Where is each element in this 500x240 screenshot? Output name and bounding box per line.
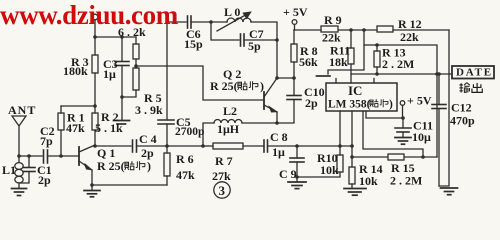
capacitor C6 <box>167 16 211 28</box>
wire collector Q1 node <box>95 145 131 147</box>
node dot C3 top <box>120 35 124 39</box>
capacitor C3 <box>115 37 129 97</box>
wire R1 top <box>61 105 95 107</box>
resistor R10 <box>297 146 343 177</box>
node dot C3 R5 bottom <box>120 95 124 99</box>
svg-text:ANT: ANT <box>8 103 36 117</box>
svg-text:2p: 2p <box>38 173 51 187</box>
svg-text:R 9: R 9 <box>324 13 342 27</box>
node dot C4 C5 R6 <box>165 144 169 148</box>
capacitor C4 <box>133 140 137 152</box>
svg-text:LM 358(: LM 358( <box>328 99 371 111</box>
node dot Q2 collector <box>275 76 279 80</box>
svg-text:): ) <box>260 79 264 93</box>
wire rail mid <box>339 29 377 31</box>
svg-text:10k: 10k <box>359 174 378 188</box>
node dot R13 bottom <box>375 72 379 76</box>
svg-text:2p: 2p <box>141 146 154 160</box>
transistor Q2 <box>264 78 277 123</box>
svg-text:47k: 47k <box>176 168 195 182</box>
capacitor C7 <box>241 34 245 46</box>
resistor R13 <box>374 45 380 74</box>
svg-text:C12: C12 <box>451 101 472 115</box>
terminal IC +5V <box>400 101 405 106</box>
transistor Q1 <box>79 145 95 185</box>
node dot C6 L0 <box>209 20 213 24</box>
svg-text:+ 5V: + 5V <box>283 5 308 19</box>
svg-text:R 6: R 6 <box>176 152 194 166</box>
wire C2 to Q1 base <box>48 155 80 157</box>
wire collector link to R8 <box>277 77 294 79</box>
wire R13 feedback loop <box>377 45 437 157</box>
node left rail <box>95 36 136 38</box>
wire +5V rail <box>294 29 321 31</box>
inductor L2 <box>203 120 277 146</box>
svg-text:C 9: C 9 <box>279 167 297 181</box>
ground under R5 <box>114 97 130 124</box>
node dot R10 pin <box>338 144 342 148</box>
resistor R1 <box>58 106 64 156</box>
node dot C7 collector <box>275 38 279 42</box>
svg-text:C 4: C 4 <box>139 132 157 146</box>
resistor R7 <box>203 143 263 149</box>
resistor R8 <box>291 30 297 78</box>
capacitor C12 <box>432 74 446 186</box>
svg-text:R 25(: R 25( <box>210 79 238 93</box>
svg-text:+ 5V: + 5V <box>407 94 432 108</box>
svg-text:1μ: 1μ <box>272 145 285 159</box>
ground IC <box>317 75 331 77</box>
node dot Q2 emitter L2 <box>275 121 279 125</box>
capacitor C1 <box>19 156 35 183</box>
svg-text:22k: 22k <box>400 30 419 44</box>
svg-text:10μ: 10μ <box>412 130 431 144</box>
wire step to Q2 base <box>136 66 264 100</box>
svg-text:R 12: R 12 <box>398 17 422 31</box>
antenna ANT <box>12 116 26 156</box>
node dot V+ rail <box>362 28 366 32</box>
ground under R14 <box>344 189 366 196</box>
svg-text:56k: 56k <box>299 55 318 69</box>
svg-text:470p: 470p <box>450 114 475 128</box>
svg-text:3: 3 <box>219 183 226 198</box>
pin IC +5V right <box>402 106 404 119</box>
node dot R1 R3 R2 <box>93 104 97 108</box>
svg-text:L2: L2 <box>223 104 237 118</box>
resistor R4 <box>133 37 139 66</box>
node dot C1 <box>27 154 31 158</box>
svg-text:27k: 27k <box>212 169 231 183</box>
svg-text:Q 1: Q 1 <box>97 146 115 160</box>
svg-text:15p: 15p <box>184 37 203 51</box>
pin IC input mid <box>351 111 353 157</box>
arrow over L0 <box>217 12 251 31</box>
wire output DATE <box>351 73 452 75</box>
svg-text:2 . 2M: 2 . 2M <box>390 174 422 188</box>
svg-text:): ) <box>147 159 151 173</box>
wire R15 net <box>352 156 437 158</box>
svg-text:IC: IC <box>348 83 362 98</box>
node dot R8 C10 <box>292 76 296 80</box>
DATE output box <box>452 66 494 79</box>
node dot R4 R5 junction <box>134 64 138 68</box>
wire C8 to IC input <box>268 145 354 147</box>
resistor R2 <box>92 106 98 146</box>
terminal +5V <box>292 20 297 30</box>
wire R13 top <box>364 44 377 46</box>
svg-text:R 7: R 7 <box>215 154 233 168</box>
resistor R11 <box>348 30 354 83</box>
svg-text:1μH: 1μH <box>217 122 240 136</box>
resistor R12 <box>377 26 393 32</box>
ground under C9 <box>288 177 306 189</box>
svg-text:10k: 10k <box>320 163 339 177</box>
node dot L2 R7 <box>201 144 205 148</box>
capacitor C5 <box>158 22 174 146</box>
node dot R1 base <box>59 154 63 158</box>
capacitor C10 <box>287 78 301 100</box>
wire C7 branch <box>211 22 239 40</box>
node dot L1 <box>17 154 21 158</box>
resistor R3 <box>92 37 98 106</box>
resistor R5 <box>122 66 139 97</box>
svg-text:www.dziuu.com: www.dziuu.com <box>0 0 179 30</box>
resistor R14 <box>349 157 355 188</box>
wire base Q1 <box>19 155 42 157</box>
node dot feedback output <box>435 72 439 76</box>
node dot C9 R10 ground <box>295 175 299 179</box>
svg-text:): ) <box>389 99 393 111</box>
resistor R9 <box>321 26 338 32</box>
ground under C11 <box>395 138 411 145</box>
svg-text:5p: 5p <box>248 39 261 53</box>
node dot output pin step <box>421 155 425 159</box>
node dot C8 C9 <box>295 144 299 148</box>
svg-text:DATE: DATE <box>456 67 493 79</box>
inductor L1 <box>15 156 23 188</box>
ground under L1 <box>12 189 27 196</box>
label circled 3 <box>214 182 230 198</box>
wire rail to output riser <box>393 29 449 31</box>
terminal left supply <box>92 14 98 20</box>
ground under Q1 <box>84 185 100 197</box>
wire V+ drop <box>328 30 364 74</box>
pin IC input left <box>339 111 341 146</box>
svg-text:180k: 180k <box>63 64 88 78</box>
svg-text:L 0: L 0 <box>224 5 240 19</box>
node dot R11 rail <box>349 28 353 32</box>
node dot Q1 collector <box>93 144 97 148</box>
svg-text:5 . 1k: 5 . 1k <box>95 121 123 135</box>
capacitor C8 <box>264 140 268 152</box>
wire emitter ground rail <box>92 184 167 186</box>
node dot R15 left <box>350 155 354 159</box>
wire supply column left <box>94 20 96 37</box>
svg-text:22k: 22k <box>322 31 341 45</box>
capacitor C11 <box>395 118 411 137</box>
node dot Q1 emitter <box>90 183 94 187</box>
svg-text:R 25(: R 25( <box>97 159 125 173</box>
svg-text:C 8: C 8 <box>270 130 288 144</box>
node dot C12 output <box>437 72 441 76</box>
label output chinese <box>459 83 482 93</box>
svg-text:3 . 9k: 3 . 9k <box>135 103 163 117</box>
capacitor C2 <box>44 150 48 163</box>
inductor L0 <box>211 18 277 78</box>
svg-text:7p: 7p <box>40 134 53 148</box>
svg-text:2p: 2p <box>305 96 318 110</box>
svg-text:47k: 47k <box>66 121 85 135</box>
wire C4 to node <box>137 145 204 147</box>
resistor R15 <box>388 154 404 160</box>
IC op-amp U1 box <box>326 83 397 111</box>
svg-text:1μ: 1μ <box>103 67 116 81</box>
node dot pin R14 <box>350 144 354 148</box>
node dot R13 top <box>375 43 379 47</box>
node dot rail left <box>93 35 97 39</box>
pin IC output <box>363 111 423 157</box>
svg-text:2700p: 2700p <box>175 126 204 138</box>
svg-text:2 . 2M: 2 . 2M <box>382 57 414 71</box>
svg-text:18k: 18k <box>329 55 348 69</box>
ground under C12 <box>441 188 458 195</box>
capacitor C9 <box>290 146 304 177</box>
svg-text:L1: L1 <box>2 163 16 177</box>
wire emitter to C10 <box>277 100 294 124</box>
resistor R6 <box>164 146 170 185</box>
wire C7 to collector column <box>244 39 277 41</box>
